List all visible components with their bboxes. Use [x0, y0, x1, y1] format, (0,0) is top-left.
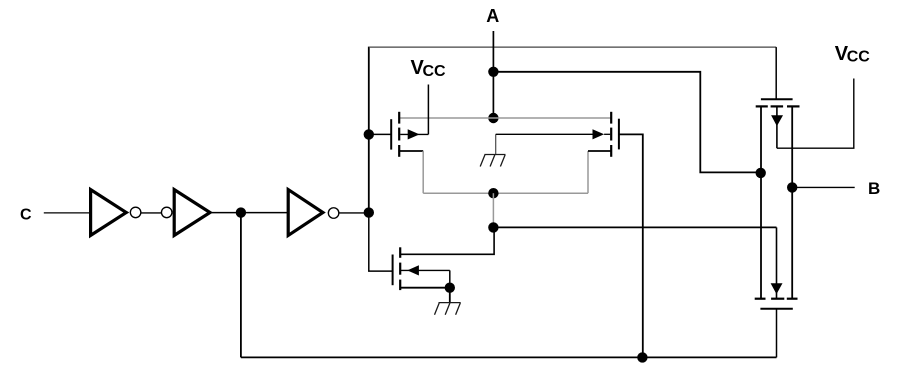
wire Q3 body to VCC right: [777, 79, 854, 149]
wire top rail (gray): [369, 46, 776, 48]
wire C input: [44, 212, 90, 214]
body lead with arrow to VCC: [400, 133, 428, 135]
gate bar: [760, 308, 792, 310]
label VCC left: [411, 57, 447, 80]
wire Q1 source down (gray): [422, 151, 424, 193]
gate lead: [369, 133, 391, 135]
gate bar: [390, 119, 392, 149]
transistor Q2 (NMOS, right of transmission gate): [588, 112, 619, 157]
svg-text:C: C: [20, 207, 32, 224]
wire U1 output to U2 input: [141, 212, 162, 214]
node N8: [445, 283, 455, 293]
node N5: [488, 113, 498, 123]
wire U3 output to node N2: [340, 212, 369, 214]
gate bar: [761, 98, 793, 100]
transistor Q4 (NMOS, bottom right): [755, 227, 798, 308]
node N1: [236, 207, 246, 217]
wire N6 to N7 (gray): [492, 193, 494, 227]
wire N7 to Q5 drain: [400, 227, 494, 254]
wire A lead: [492, 31, 494, 118]
wire N7 to Q4 body: [493, 226, 776, 228]
wire N1 down to bottom bus: [240, 213, 242, 358]
channel segments: [755, 298, 766, 300]
transistor Q3 (PMOS, top right): [756, 99, 800, 148]
ground G2: [435, 288, 461, 315]
wire transmission-gate top rail (gray): [399, 117, 611, 119]
transistor Q1 (PMOS, left of transmission gate): [369, 112, 429, 157]
node N4: [488, 67, 498, 77]
wire N1 to U3 input: [241, 212, 288, 214]
inverter U3: [288, 190, 339, 236]
gate bar: [618, 119, 620, 150]
wire G1 to Q2 body (with arrow): [496, 129, 611, 139]
label VCC right: [835, 43, 871, 66]
node N11: [787, 182, 797, 192]
wire Q2 source down (gray): [587, 151, 589, 193]
svg-text:A: A: [486, 6, 499, 26]
channel segments: [399, 247, 401, 257]
transistor Q5 (NMOS, lower left): [393, 247, 450, 290]
node N7: [488, 222, 498, 232]
ground G1: [480, 134, 505, 166]
gate bar: [392, 255, 394, 286]
node N9: [637, 352, 647, 362]
svg-text:B: B: [868, 179, 880, 198]
wire top rail to Q3 gate: [775, 47, 777, 99]
svg-text:CC: CC: [423, 63, 447, 80]
wire bottom bus: [241, 356, 777, 358]
wire Q2 gate down to bottom bus: [619, 134, 643, 357]
body leg with down arrow: [776, 227, 778, 298]
source lead: [400, 287, 450, 289]
node N2: [364, 207, 374, 217]
node N3 gate tap of Q1: [364, 129, 374, 139]
wire Q3/Q4 right leg: [791, 106, 793, 298]
wire A to right column: [493, 72, 760, 173]
body leg with down arrow: [776, 106, 778, 148]
svg-text:CC: CC: [847, 49, 871, 66]
wire U2 output to node N1: [212, 212, 241, 214]
wire N2 down to Q5 gate: [369, 213, 393, 272]
node N6: [488, 188, 498, 198]
channel segments: [610, 112, 612, 124]
wire Q3/Q4 left leg: [760, 106, 762, 298]
channel segments: [756, 105, 768, 107]
wire Q4 gate lead: [776, 309, 778, 358]
wire VCC lead to Q1 body: [427, 85, 429, 135]
inverter U1: [91, 190, 141, 236]
inverter U2: [161, 190, 210, 236]
source lead: [399, 150, 423, 152]
source lead: [588, 150, 611, 152]
channel segments: [398, 112, 400, 124]
node N10: [756, 168, 766, 178]
wire transmission-gate bottom rail (gray): [423, 192, 588, 194]
body lead with arrow to source node: [400, 269, 450, 271]
wire B lead: [792, 186, 855, 188]
wire N2 up to top rail: [368, 47, 370, 213]
